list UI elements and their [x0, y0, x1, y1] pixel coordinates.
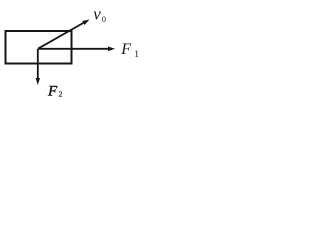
- svg-text:0: 0: [102, 14, 106, 24]
- velocity arrow v0 shaft: [38, 22, 84, 48]
- block (rectangle): [6, 31, 72, 64]
- velocity arrow v0 head: [82, 20, 89, 25]
- svg-text:1: 1: [134, 50, 139, 60]
- force arrow F1 head: [108, 47, 115, 52]
- svg-text:v: v: [93, 5, 101, 24]
- svg-text:F: F: [120, 41, 131, 58]
- svg-text:F: F: [47, 83, 58, 99]
- svg-text:2: 2: [59, 89, 63, 98]
- force arrow F2 shaft: [37, 49, 39, 80]
- force arrow F1 shaft: [38, 48, 110, 50]
- force arrow F2 head: [36, 78, 40, 85]
